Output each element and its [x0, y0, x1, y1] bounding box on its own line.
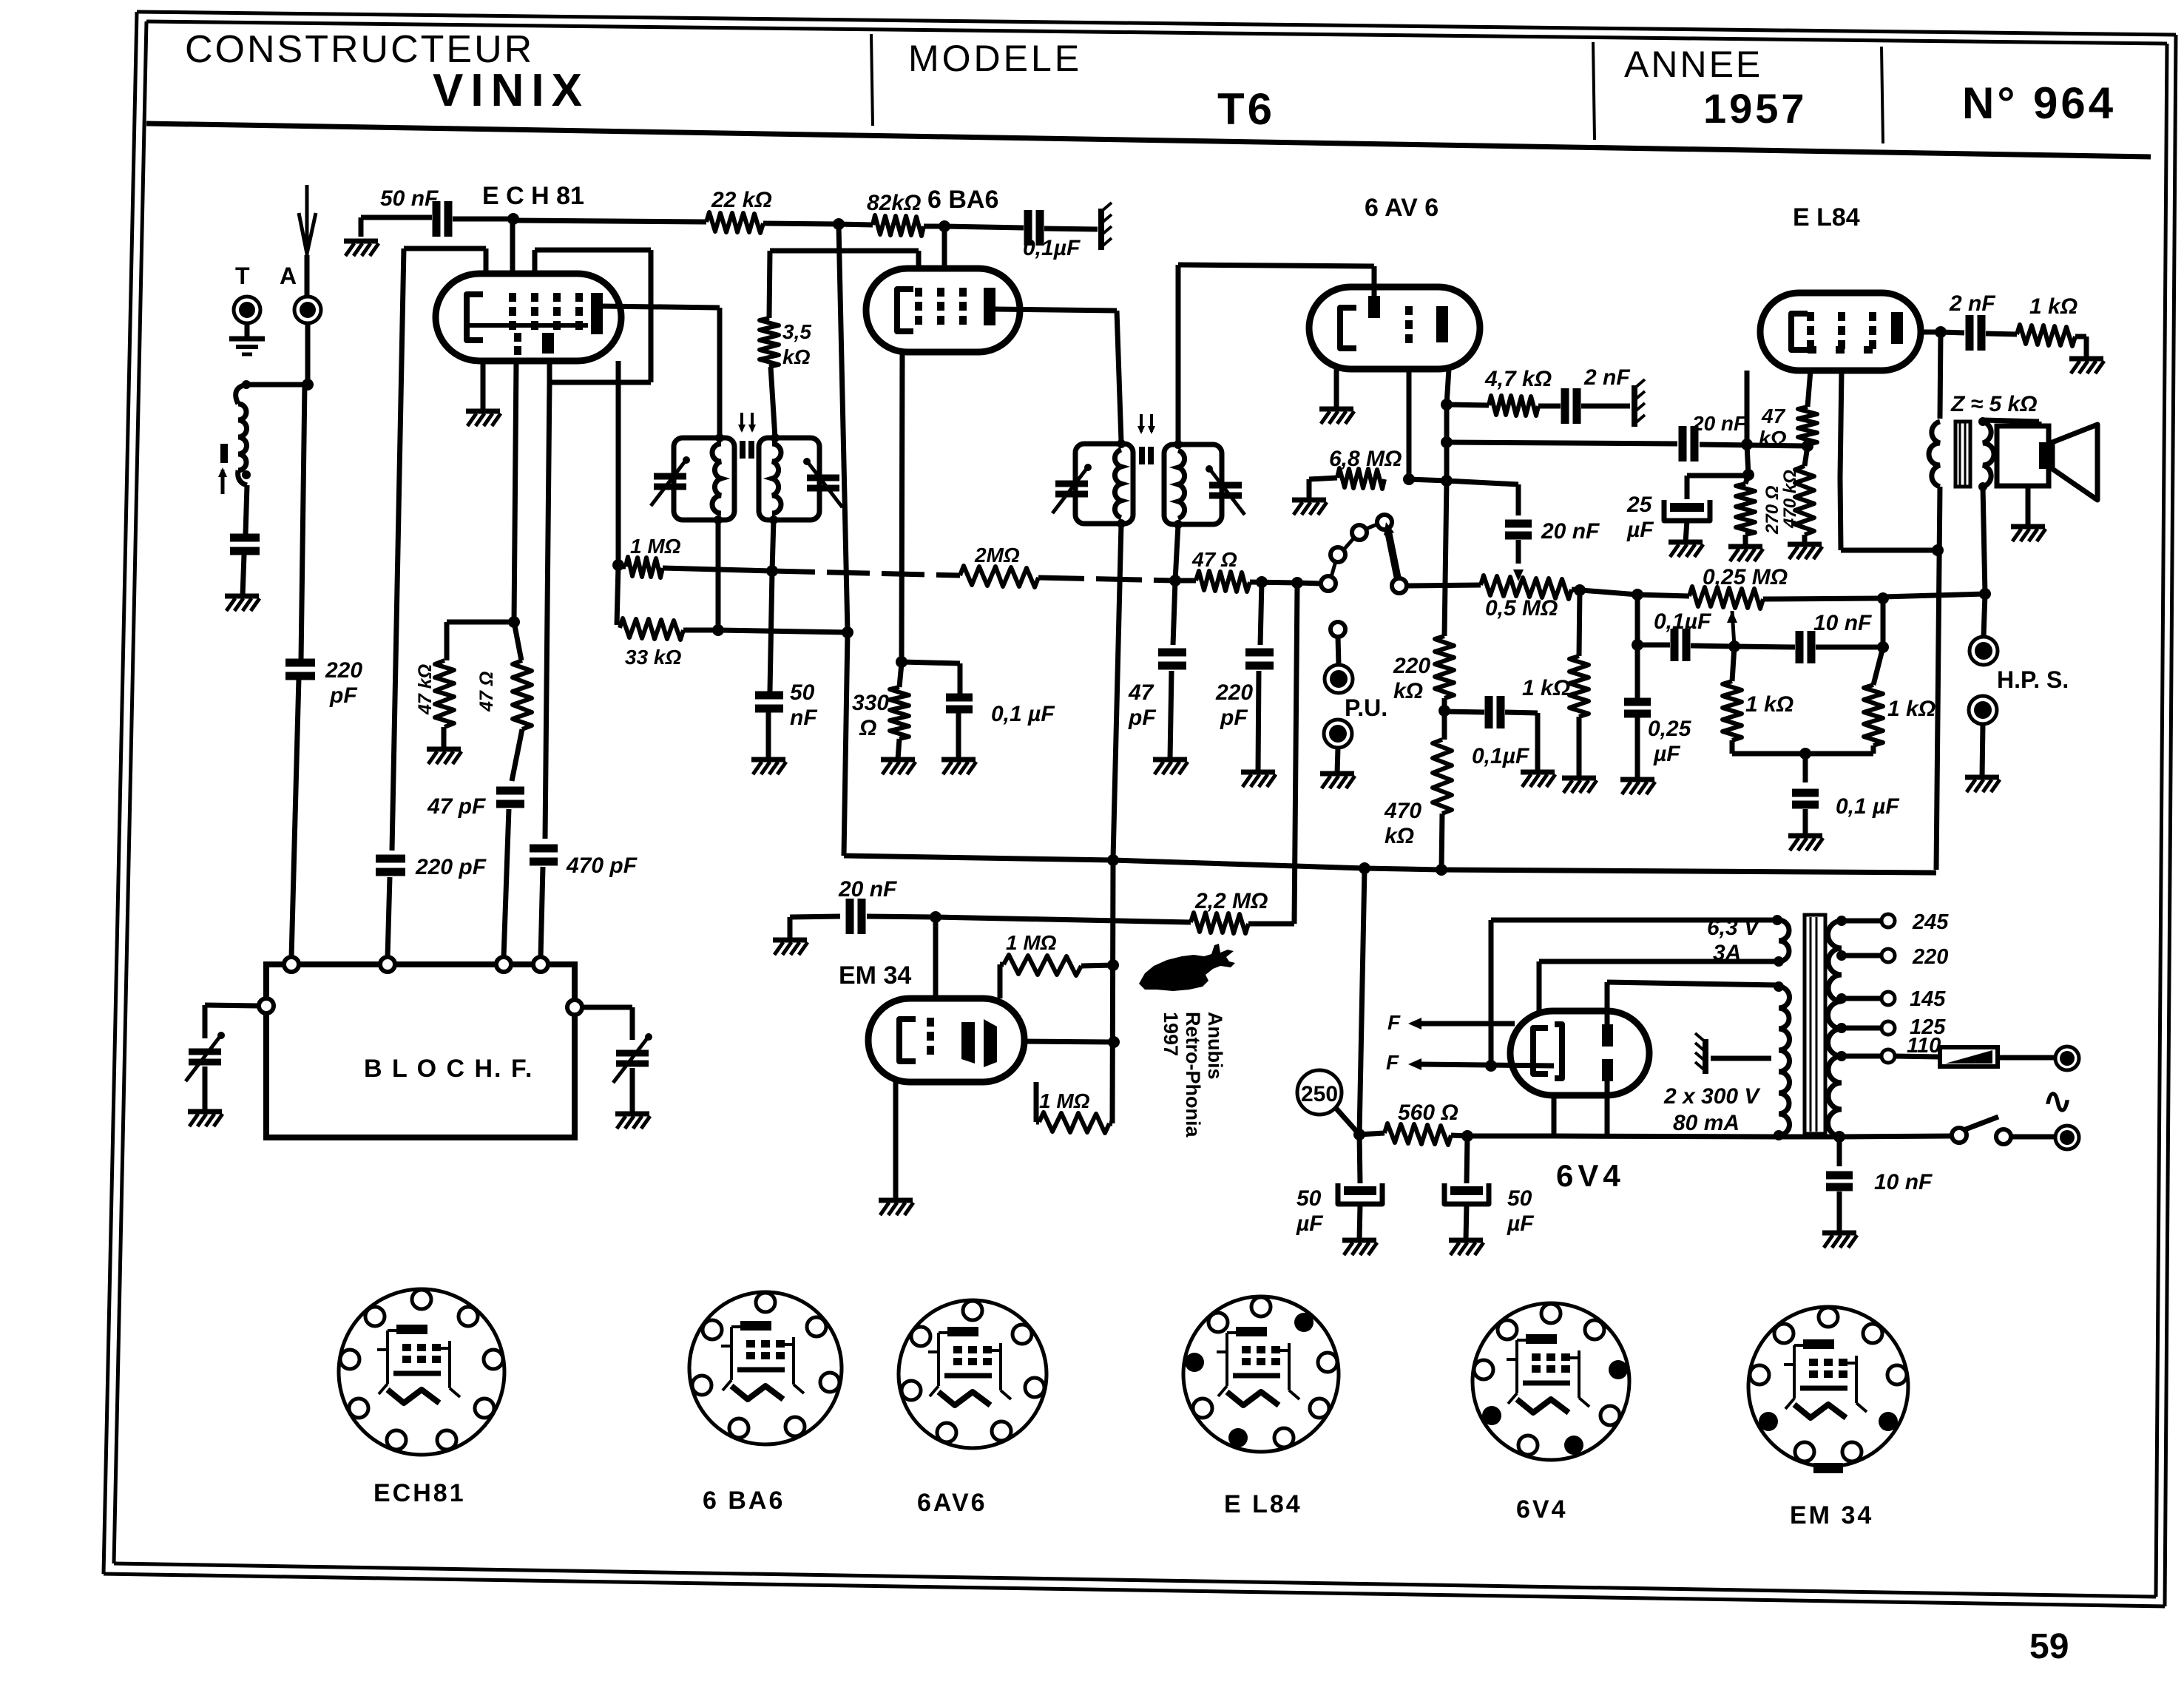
resistor 470k AV [1433, 740, 1452, 814]
svg-text:µF: µF [1507, 1211, 1534, 1236]
IF2 primary box [1075, 444, 1133, 524]
ECH81 cathode pin to ground [481, 361, 486, 411]
IF2 node bottom secondary [1174, 520, 1183, 529]
capacitor 2nF [1561, 388, 1569, 424]
tuning capacitor left [189, 1049, 221, 1055]
wire tuning right ground [630, 1068, 635, 1114]
wire 20nF to EM34 node [867, 916, 936, 917]
speaker voice coil [2039, 442, 2052, 469]
header divider 1 [871, 34, 873, 126]
IF1 secondary coil [772, 444, 781, 513]
wire node to 50uF1 [1359, 1135, 1360, 1183]
tone right vert [1881, 598, 1886, 647]
0.25M wiper arrow [1727, 611, 1737, 623]
resistor 1M upper [1004, 955, 1081, 976]
ground 220pF3 [1241, 770, 1275, 775]
BLOC port left [259, 998, 274, 1013]
wire to switch contact [1297, 583, 1321, 584]
svg-text:6,3 V: 6,3 V [1707, 916, 1761, 940]
EL84 screen pin down [1840, 371, 1842, 478]
svg-text:250: 250 [1301, 1082, 1338, 1106]
socket 6V4 internals [1526, 1334, 1557, 1344]
mains tap 110 [1836, 1051, 1847, 1061]
svg-text:MODELE: MODELE [908, 38, 1082, 79]
node A junction [302, 379, 314, 390]
resistor 270ohm [1736, 484, 1755, 535]
wire IF1 pri bottom to bus2 [716, 520, 721, 629]
wire node to 50uF2 [1467, 1136, 1467, 1183]
socket EM 34 internals [1803, 1339, 1834, 1349]
switch link 3-4 [1366, 524, 1377, 529]
wire 6AV6 grid loop top [1178, 265, 1374, 266]
ground HPS2 [1965, 775, 1999, 780]
ground 50uF1 [1342, 1238, 1376, 1243]
EM34 target wedge 1 [961, 1022, 975, 1064]
wire 220pF3 ground [1258, 671, 1259, 772]
pot 0.25M [1689, 586, 1763, 609]
resistor 47k vertical [435, 660, 454, 727]
svg-text:1 kΩ: 1 kΩ [2029, 294, 2077, 319]
wire 270 top [1745, 475, 1748, 484]
wire B+ IF2 vertical lower [1112, 860, 1113, 1123]
wire pot to node [1572, 589, 1637, 595]
svg-text:µF: µF [1296, 1211, 1323, 1236]
wire 50uF2 ground [1466, 1204, 1467, 1240]
wire bus1 f [1250, 582, 1297, 583]
svg-text:6AV6: 6AV6 [917, 1489, 987, 1517]
svg-text:pF: pF [1128, 706, 1156, 730]
speaker cone [2052, 425, 2097, 500]
socket EM 34 circle [1748, 1307, 1908, 1467]
wire capacitor to ground [243, 555, 244, 596]
BLOC port 1 [284, 957, 299, 972]
svg-text:82kΩ: 82kΩ [867, 191, 921, 215]
node rail 560 [1359, 862, 1370, 874]
node EM34 anode [1108, 1036, 1120, 1048]
IF2 primary trimmer [1055, 481, 1088, 487]
antenna coil L1 [236, 385, 246, 404]
output transformer secondary coil [1983, 422, 1994, 487]
EL84 cathode pin down [1745, 371, 1750, 444]
ground ECH81 cathode [466, 409, 500, 414]
node lower left [1632, 639, 1643, 651]
wire OT primary bottom to rail [1936, 487, 1940, 870]
resistor 4.7k [1489, 396, 1538, 416]
node 560 out [1461, 1130, 1473, 1142]
wire 33k to IF1 node [683, 628, 718, 633]
svg-text:µF: µF [1626, 518, 1654, 542]
tuning capacitor right [616, 1050, 649, 1057]
BLOC port 4 [533, 957, 548, 972]
svg-text:6 AV 6: 6 AV 6 [1365, 194, 1438, 222]
capacitor 0.1uF ECH81 [1024, 210, 1032, 246]
node tone left [1632, 589, 1643, 601]
EL84 beam plate dashes [1808, 346, 1816, 354]
svg-text:1 MΩ: 1 MΩ [630, 535, 681, 558]
wire 220pF3 drop [1260, 582, 1262, 645]
6AV6 anode pin down [1447, 369, 1449, 405]
IF1 core bars [740, 441, 746, 459]
svg-text:kΩ: kΩ [1385, 824, 1414, 848]
ECH81 pin g2 down [514, 361, 516, 622]
wire node to 0.25M [1637, 595, 1689, 596]
page inner border [146, 21, 2167, 44]
node grid ECH81 osc [507, 213, 519, 225]
socket 6V4 pins [1541, 1304, 1561, 1323]
svg-text:1 kΩ: 1 kΩ [1522, 676, 1570, 700]
jack PU 1 [1325, 665, 1353, 693]
wire 20nF to EL84 grid node [1700, 444, 1808, 446]
socket ECH81 circle [339, 1289, 504, 1455]
svg-text:6,8 MΩ: 6,8 MΩ [1329, 447, 1402, 471]
svg-text:2MΩ: 2MΩ [974, 544, 1020, 567]
BLOC port right [567, 1000, 582, 1015]
wire 0.1uF tone to mid [1691, 646, 1734, 646]
capacitor 2nF out [1966, 315, 1974, 351]
node tone mid [1728, 640, 1740, 652]
svg-text:2,2 MΩ: 2,2 MΩ [1194, 889, 1268, 913]
svg-text:0,1 µF: 0,1 µF [991, 702, 1055, 726]
svg-text:6V4: 6V4 [1516, 1495, 1568, 1524]
wire 47pF to BLOC port3 [504, 809, 509, 958]
switch mains blade [1964, 1117, 1998, 1130]
F arrow upper [1420, 1021, 1515, 1027]
svg-text:47 pF: 47 pF [427, 794, 486, 819]
node g2 47k [508, 616, 520, 628]
EM34 grid pin [933, 917, 939, 998]
svg-text:3A: 3A [1713, 941, 1741, 965]
wire 1M lower left pin [1036, 1120, 1039, 1125]
output transformer primary coil [1929, 422, 1940, 487]
svg-text:6 BA6: 6 BA6 [703, 1487, 785, 1515]
svg-text:145: 145 [1910, 987, 1946, 1011]
svg-text:2 x 300 V: 2 x 300 V [1663, 1084, 1761, 1109]
wire 10nF right [1816, 645, 1883, 650]
capacitor 20nF coupling [1679, 426, 1687, 461]
wire triode grid to 33k [617, 565, 618, 625]
IF1 arrows [740, 413, 743, 430]
node 220pF tap [1256, 576, 1268, 588]
svg-text:2 nF: 2 nF [1583, 365, 1630, 390]
capacitor 220pF antenna [285, 659, 315, 667]
node HT bottom [1774, 1130, 1784, 1140]
resistor 82k [873, 215, 924, 236]
wire bus2 to vertical [718, 630, 848, 632]
wire EM34 grid line right [936, 917, 1191, 922]
tone cap tap [1447, 481, 1518, 484]
heater line 6.3V top [1491, 918, 1777, 923]
svg-text:47 kΩ: 47 kΩ [415, 664, 436, 715]
IF1 primary trimmer [654, 473, 686, 480]
ECH81 lower anode [542, 333, 554, 354]
wire coil to capacitor [246, 485, 247, 534]
switch contact 2 [1331, 547, 1345, 562]
node diode 6.8M [1403, 473, 1415, 485]
node 6.3V top [1772, 915, 1782, 925]
wire IF2 sec bottom to bus1 [1175, 524, 1178, 581]
wire node C to 0.1uF [944, 226, 1024, 228]
svg-text:220 pF: 220 pF [415, 855, 487, 879]
ground 270ohm [1728, 544, 1762, 550]
wire grid top left [404, 246, 486, 251]
wire HPS2 ground [1982, 724, 1983, 777]
wire 47pF2 drop [1173, 581, 1175, 645]
capacitor 10nF tone [1796, 631, 1804, 663]
wire 270 ground [1743, 535, 1748, 547]
wire mid to 10nF [1734, 646, 1795, 647]
capacitor antenna series [230, 534, 260, 542]
wire 470pF to BLOC port4 [541, 867, 543, 958]
ECH81 triode grid pin down [616, 361, 621, 565]
IF1 node bottom primary [714, 515, 723, 524]
wire switch to jack2 [2011, 1135, 2056, 1140]
svg-text:EM 34: EM 34 [839, 961, 911, 990]
IF1 primary box [674, 438, 734, 520]
socket 6V4 circle [1473, 1303, 1629, 1460]
wire anode vert a [1444, 405, 1450, 442]
6V4 anode 2 [1602, 1059, 1613, 1081]
wire 6.8M left to ground [1309, 478, 1337, 479]
IF1 primary coil [712, 444, 721, 513]
wire 47pF2 ground [1170, 671, 1172, 760]
svg-text:6 BA6: 6 BA6 [927, 186, 998, 214]
node OT sec top [1978, 417, 1987, 426]
capacitor 20nF EM34 [846, 899, 854, 934]
wire 220k node [1442, 698, 1447, 740]
svg-text:47 Ω: 47 Ω [1191, 548, 1237, 571]
jack A [294, 297, 321, 323]
svg-text:kΩ: kΩ [1759, 427, 1787, 450]
wire 50uF1 ground [1359, 1204, 1360, 1240]
svg-text:20 nF: 20 nF [1691, 412, 1747, 435]
wire to switch contact [1839, 1136, 1953, 1137]
socket E L84 internals [1236, 1327, 1267, 1336]
resistor 3.5k [760, 318, 779, 367]
wire T to earth [245, 323, 250, 339]
socket 6 BA6 circle [689, 1292, 842, 1444]
ECH81 triode anode col down [545, 382, 550, 839]
wire sec bottom to HPS [1983, 487, 1985, 594]
jack HPS 2 [1969, 696, 1997, 724]
wire antenna down to 220pF [301, 385, 305, 660]
svg-text:33 kΩ: 33 kΩ [625, 646, 681, 669]
switch arm [1387, 528, 1398, 579]
capacitor 25uF [1670, 503, 1704, 512]
node 1k join [1799, 748, 1811, 760]
node 4.7k [1441, 399, 1453, 410]
tube ECH81 [436, 274, 621, 361]
IF2 node top secondary [1174, 440, 1183, 449]
screen wall 2nF [1632, 385, 1637, 427]
node F [1485, 1060, 1497, 1072]
wire 10nF psu ground [1837, 1191, 1842, 1233]
wire node B to 82k [839, 224, 873, 225]
wire screen to B+ [1841, 548, 1938, 553]
6BA6 pin grid top [916, 251, 922, 268]
socket E L84 pins [1251, 1297, 1271, 1316]
svg-text:1 kΩ: 1 kΩ [1745, 692, 1793, 717]
wire 0.1uF AV bend [1505, 712, 1538, 713]
6V4 cathode brackets [1533, 1028, 1548, 1074]
node on anode line [1441, 475, 1453, 487]
resistor 47ohm series [1196, 571, 1250, 592]
switch link 1-2 [1331, 561, 1336, 577]
6AV6 diode pin [1407, 369, 1412, 479]
svg-text:kΩ: kΩ [782, 345, 811, 368]
resistor 330ohm [890, 687, 909, 739]
capacitor 47pF 2 [1158, 649, 1186, 657]
wire 4.7k to 2nF [1538, 404, 1561, 409]
svg-text:245: 245 [1912, 910, 1949, 934]
svg-text:1997: 1997 [1160, 1012, 1182, 1056]
wire 220pF to BLOC HF [291, 678, 299, 958]
wire tone cap to pot arrow [1516, 540, 1521, 564]
svg-text:220: 220 [1393, 654, 1430, 678]
ground tuning left [188, 1109, 222, 1115]
switch mains contact 1 [1952, 1128, 1967, 1143]
coil core bar [220, 444, 228, 463]
wire tap down [1516, 484, 1521, 515]
mains tap 125 [1836, 1023, 1847, 1033]
wire 560 left [1359, 1133, 1385, 1135]
wire 22k to node B [763, 223, 839, 224]
wire ground to 50nF [359, 217, 364, 237]
wire 82k to node C [924, 224, 944, 229]
6AV6 grid pin [1372, 266, 1377, 300]
speaker frame [1997, 426, 2049, 486]
svg-text:A: A [280, 263, 297, 289]
capacitor 0.1uF AV [1485, 696, 1493, 728]
socket 6AV6 pins [963, 1301, 982, 1320]
screen ground wall [1098, 209, 1104, 250]
resistor 6.8M [1337, 468, 1385, 489]
svg-text:10 nF: 10 nF [1874, 1170, 1933, 1194]
node EM34 grid [930, 911, 941, 923]
svg-text:25: 25 [1626, 493, 1653, 517]
socket 6 BA6 internals [740, 1321, 771, 1331]
wire join to 0.1uF5 [1803, 754, 1808, 782]
capacitor 0.25uF [1635, 645, 1640, 698]
transformer 6.3V winding [1779, 920, 1789, 961]
ground tuning right [615, 1112, 649, 1117]
svg-text:0,1µF: 0,1µF [1472, 744, 1529, 768]
wire tone to HPS line [1883, 594, 1985, 597]
resistor 560 [1385, 1123, 1451, 1145]
IF1 node bottom secondary [769, 515, 778, 524]
resistor 1k C [1722, 681, 1742, 740]
wire 0.1uF drop [958, 663, 963, 694]
ground 0.1uF5 [1788, 834, 1822, 839]
6V4 anode bottom wire [1605, 1081, 1610, 1135]
svg-text:1957: 1957 [1703, 85, 1808, 132]
volume pot 0.5M [1481, 575, 1572, 599]
node IF1 sec bottom [766, 565, 778, 577]
IF2 arrows [1140, 414, 1143, 432]
EL84 anode to node [1921, 330, 1941, 335]
wire anode to 2nF out [1941, 332, 1964, 333]
capacitor 47pF [496, 787, 524, 795]
line 20nF to EL84 [1447, 442, 1677, 444]
svg-text:∿: ∿ [2043, 1082, 2072, 1121]
svg-text:2 nF: 2 nF [1949, 291, 1995, 316]
coil tuning arrow [221, 470, 225, 494]
wire bus1 a [618, 564, 626, 569]
wire 50nF to node [453, 217, 513, 222]
mains tap 220 [1836, 950, 1847, 961]
svg-text:ECH81: ECH81 [373, 1479, 466, 1507]
ground 0.1uF cathode [941, 757, 976, 763]
resistor 470k EL84 [1795, 466, 1814, 535]
switch link 2-3 [1344, 538, 1354, 550]
svg-text:Ω: Ω [859, 716, 876, 740]
wire 0.1uF to screen wall [1044, 229, 1098, 229]
switch contact 3 [1352, 525, 1367, 540]
BLOC port 3 [496, 957, 511, 972]
ground EM34 [879, 1198, 913, 1203]
ground 47pF2 [1153, 757, 1187, 763]
resistor 1M AVC [626, 557, 663, 578]
wire 0.1uF5 ground [1803, 809, 1808, 836]
mains tap 245 [1836, 916, 1847, 926]
wire 47ohm to 47pF [512, 729, 522, 781]
node screen B+ [1932, 544, 1944, 556]
svg-text:50: 50 [1296, 1186, 1322, 1211]
wire 2.2M to riser [1248, 922, 1294, 927]
label 250 circle [1297, 1070, 1342, 1115]
ground 20nF EM34 [773, 938, 807, 943]
jack PU 2 [1324, 720, 1352, 748]
node 20nF line [1441, 436, 1453, 448]
switch PU contact [1331, 622, 1345, 637]
svg-text:Anubis: Anubis [1204, 1012, 1226, 1080]
wire IF2 sec top up [1176, 265, 1181, 444]
wire tuning left ground [203, 1066, 208, 1112]
wire 1M lower right [1109, 1121, 1112, 1126]
IF1 secondary box [759, 438, 819, 520]
ECH81 pin wire top1 [484, 248, 489, 274]
wire 330 top [899, 663, 902, 687]
6BA6 pin screen top [942, 227, 947, 268]
wire 0.25M right [1763, 598, 1883, 599]
node EL84 cathode [1741, 439, 1753, 450]
svg-text:E C H 81: E C H 81 [482, 182, 584, 210]
wire 6.8M to anode line [1409, 479, 1447, 481]
node 6.3V bottom [1774, 956, 1784, 967]
wire 50nF to ground [766, 712, 771, 760]
pot wiper arrow [1513, 569, 1524, 581]
resistor 1k B [1569, 656, 1589, 717]
wire bus1 b [663, 568, 772, 571]
center tap chassis [1703, 1039, 1708, 1074]
IF1 secondary trimmer [807, 475, 839, 481]
wire 1kC top [1732, 646, 1734, 681]
resistor 1k out [2017, 325, 2075, 346]
ground PU [1320, 771, 1354, 777]
B+ rail [844, 856, 1936, 873]
ground 0.1uF AV [1521, 770, 1555, 775]
capacitor 50nF [433, 201, 441, 237]
wire PU contact to jack [1338, 637, 1339, 665]
6BA6 cathode pin down [902, 352, 902, 662]
EM34 target wedge 2 [984, 1019, 997, 1067]
svg-text:3,5: 3,5 [782, 320, 811, 343]
BLOC port 2 [380, 957, 395, 972]
ground 330ohm [881, 757, 915, 763]
ECH81 anode line [603, 306, 720, 308]
ground speaker [2011, 524, 2045, 530]
capacitor 0.1uF 5 [1792, 789, 1819, 797]
ground 1k B [1562, 776, 1596, 781]
